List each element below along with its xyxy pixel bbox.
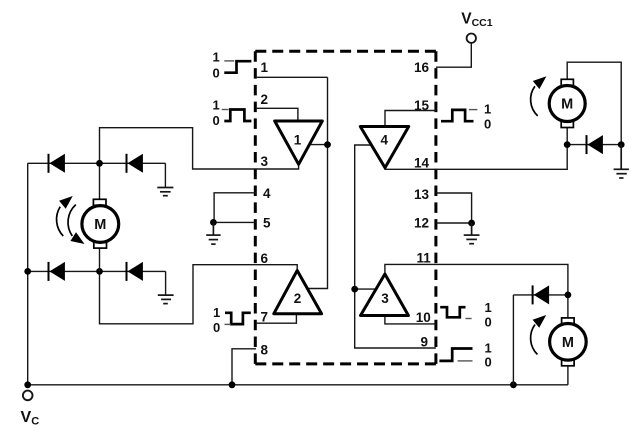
svg-text:12: 12: [414, 216, 429, 231]
svg-text:15: 15: [414, 98, 430, 113]
node EN2 junction dot: [351, 286, 358, 293]
diode D5 across top right motor: [587, 135, 603, 154]
svg-text:1: 1: [213, 49, 220, 64]
svg-text:13: 13: [414, 187, 430, 202]
svg-text:M: M: [562, 335, 574, 351]
svg-text:4: 4: [263, 186, 271, 201]
wire bottom right motor lower lead: [567, 366, 569, 385]
svg-text:7: 7: [261, 310, 269, 325]
driver U1B triangle 2: [274, 271, 322, 314]
svg-text:3: 3: [261, 154, 269, 169]
svg-text:V: V: [21, 409, 32, 426]
ground symbol for pins 12 and 13: [464, 223, 480, 244]
wire EN1 tap to driver 1: [309, 144, 327, 146]
svg-text:0: 0: [484, 117, 491, 132]
wire pin1 EN1 net horizontal: [256, 76, 328, 78]
wire top row to ground: [164, 163, 166, 187]
wire pin10 input 3A to driver 3: [385, 316, 436, 324]
ground symbol top of H-bridge: [157, 188, 173, 196]
wire top right motor upper loop: [567, 62, 621, 144]
wire left H-bridge bottom diode row: [28, 270, 166, 272]
svg-text:2: 2: [294, 291, 302, 306]
driver U1D triangle 4: [360, 127, 408, 168]
svg-text:1: 1: [261, 60, 269, 75]
svg-text:1: 1: [485, 341, 492, 356]
wire left supply bus vertical: [27, 163, 29, 384]
terminal VC open circle: [23, 391, 33, 401]
svg-text:2: 2: [261, 92, 269, 107]
svg-text:0: 0: [213, 66, 220, 81]
driver U1C triangle 3: [361, 274, 409, 316]
rotation arrows for motor M1: [57, 196, 85, 244]
svg-text:0: 0: [213, 113, 220, 128]
wire pin3 output 1Y to left motor bridge: [256, 164, 299, 169]
wire pin6 output 2Y route to H-bridge bottom: [100, 265, 298, 324]
wire pin14 output 4Y to top right motor: [385, 128, 567, 170]
svg-text:4: 4: [381, 133, 389, 148]
wire bottom right diode rail: [512, 295, 514, 385]
wire bottom VC bus: [28, 384, 568, 386]
IC outline U1 (dashed package box): [255, 51, 436, 364]
wire pin12 ground lead: [436, 222, 472, 224]
diode D2 top-right of bridge: [127, 154, 143, 173]
wire pin11 output 3Y to bottom right motor: [385, 264, 568, 318]
svg-text:M: M: [561, 97, 573, 113]
diode D4 bottom-right of bridge: [127, 262, 143, 281]
motor M3 bottom right motor: [550, 318, 587, 366]
wire motor1 lower lead: [99, 248, 101, 271]
waveform input at pin10 (pulse low): [440, 307, 471, 318]
diode D3 bottom-left of bridge: [49, 262, 65, 281]
node pins 12/13 ground junction dot: [468, 220, 475, 227]
ground symbol bottom of H-bridge: [158, 295, 174, 304]
waveform input at pin2 (pulse high): [222, 110, 252, 122]
waveform input at pin15 (pulse high): [441, 110, 477, 122]
diode D6 clamp bottom right motor: [533, 285, 550, 304]
svg-text:1: 1: [213, 98, 220, 113]
node VC bus diode rail dot: [510, 381, 517, 388]
svg-text:1: 1: [485, 300, 492, 315]
svg-text:1: 1: [213, 305, 220, 320]
wire top right diode row: [567, 144, 621, 146]
svg-text:16: 16: [414, 60, 430, 75]
wire pin4 ground lead: [214, 193, 256, 223]
svg-text:10: 10: [416, 310, 431, 325]
wire pin8 VCC2 lead to VC bus: [232, 349, 256, 385]
wire EN2 tap to driver 3: [355, 288, 376, 290]
node H-bridge top junction dot: [96, 160, 103, 167]
wire left H-bridge top diode row: [28, 162, 166, 164]
node top motor output junction dot: [564, 141, 571, 148]
svg-text:11: 11: [417, 251, 432, 266]
terminal VCC1 open circle: [467, 34, 476, 43]
wire pin15 input 4A to driver 4: [385, 111, 436, 127]
svg-text:C: C: [31, 416, 39, 428]
waveform input at pin9 (step): [439, 349, 472, 361]
rotation arrow for motor M2: [531, 76, 547, 116]
node H-bridge bottom left dot: [24, 268, 31, 275]
svg-text:0: 0: [485, 315, 492, 330]
svg-text:0: 0: [213, 320, 220, 335]
wire pin9 EN2 net to drivers 3 and 4: [355, 145, 436, 348]
motor M2 top right motor: [549, 79, 585, 127]
node VC bus pin8 dot: [229, 381, 236, 388]
svg-text:1: 1: [484, 101, 491, 116]
wire pin5 ground lead: [213, 221, 256, 223]
svg-text:5: 5: [263, 216, 271, 231]
wire pin16 VCC1 lead: [436, 43, 471, 67]
svg-text:3: 3: [381, 291, 389, 306]
svg-text:0: 0: [485, 355, 492, 370]
svg-text:1: 1: [294, 133, 302, 148]
wire pin7 input 2A to driver 2: [256, 314, 296, 324]
wire EN1 vertical to drivers 1 and 2: [307, 77, 327, 288]
ground symbol for pins 4 and 5: [206, 222, 220, 244]
waveform input at pin1 (step): [224, 61, 251, 73]
svg-text:8: 8: [261, 343, 269, 358]
rotation arrow for motor M3: [531, 315, 547, 354]
node VC bus left dot: [24, 381, 31, 388]
ground symbol top right motor: [614, 145, 629, 178]
wire pin3 external run to H-bridge top: [100, 128, 256, 200]
waveform input at pin7 (pulse low): [225, 313, 251, 325]
driver U1A triangle 1: [275, 121, 323, 164]
node pins 4/5 ground junction dot: [210, 219, 217, 226]
wire bottom row to ground: [165, 271, 167, 294]
wire bottom right diode row: [513, 294, 568, 296]
svg-text:14: 14: [414, 156, 430, 171]
svg-text:9: 9: [420, 335, 428, 350]
svg-text:M: M: [94, 217, 106, 233]
wire pin13 ground lead: [436, 193, 472, 223]
wire pin2 input 1A to driver 1: [256, 108, 298, 121]
svg-text:CC1: CC1: [472, 17, 493, 29]
node bottom motor diode junction dot: [565, 292, 572, 299]
node H-bridge bottom center dot: [96, 268, 103, 275]
node EN1 junction dot: [324, 141, 331, 148]
svg-text:V: V: [461, 11, 472, 28]
motor M1 left bidirectional motor: [82, 199, 119, 248]
node top motor ground junction dot: [618, 141, 625, 148]
svg-text:6: 6: [261, 251, 269, 266]
diode D1 top-left of bridge: [49, 154, 65, 173]
